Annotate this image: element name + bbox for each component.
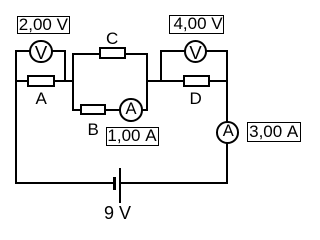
- wire: top-left horizontal through voltmeter V1: [15, 50, 66, 52]
- wire: middle loop bottom horizontal: [72, 109, 149, 111]
- resistor C: [99, 47, 126, 59]
- wire: left vertical main loop: [15, 50, 17, 184]
- battery negative plate (short): [113, 177, 116, 191]
- wire: D loop top horizontal through voltmeter V2: [160, 50, 228, 52]
- wire: resistor D branch horizontal: [160, 80, 228, 82]
- wire: bottom horizontal right of battery: [120, 182, 229, 184]
- label C: [106, 30, 118, 47]
- wire: connector between middle loop and D loop: [146, 80, 162, 82]
- ammeter A1: [119, 98, 143, 122]
- wire: middle loop right vertical: [146, 53, 148, 111]
- battery positive plate (long): [119, 168, 121, 203]
- wire: D loop left vertical: [160, 50, 162, 82]
- wire: resistor A branch horizontal: [15, 80, 75, 82]
- wire: right vertical of voltmeter/resistor-A loop: [64, 50, 66, 82]
- reading box 1,00 A: [106, 127, 159, 146]
- voltmeter V1: [29, 40, 52, 63]
- reading box 3,00 A: [247, 122, 301, 142]
- label B: [88, 121, 99, 138]
- wire: right vertical main loop through ammeter A2: [226, 50, 228, 184]
- ammeter A2: [216, 121, 239, 144]
- label A: [36, 90, 47, 107]
- label D: [190, 90, 202, 107]
- reading box 2,00 V: [17, 16, 70, 35]
- resistor B: [80, 104, 106, 115]
- wire: bottom horizontal left of battery: [15, 182, 115, 184]
- resistor A: [27, 75, 56, 87]
- reading box 4,00 V: [169, 15, 224, 34]
- battery value 9 V: [104, 204, 131, 222]
- wire: middle loop top horizontal: [72, 53, 149, 55]
- resistor D: [183, 75, 211, 87]
- wire: middle loop left vertical: [72, 53, 74, 111]
- voltmeter V2: [184, 40, 207, 63]
